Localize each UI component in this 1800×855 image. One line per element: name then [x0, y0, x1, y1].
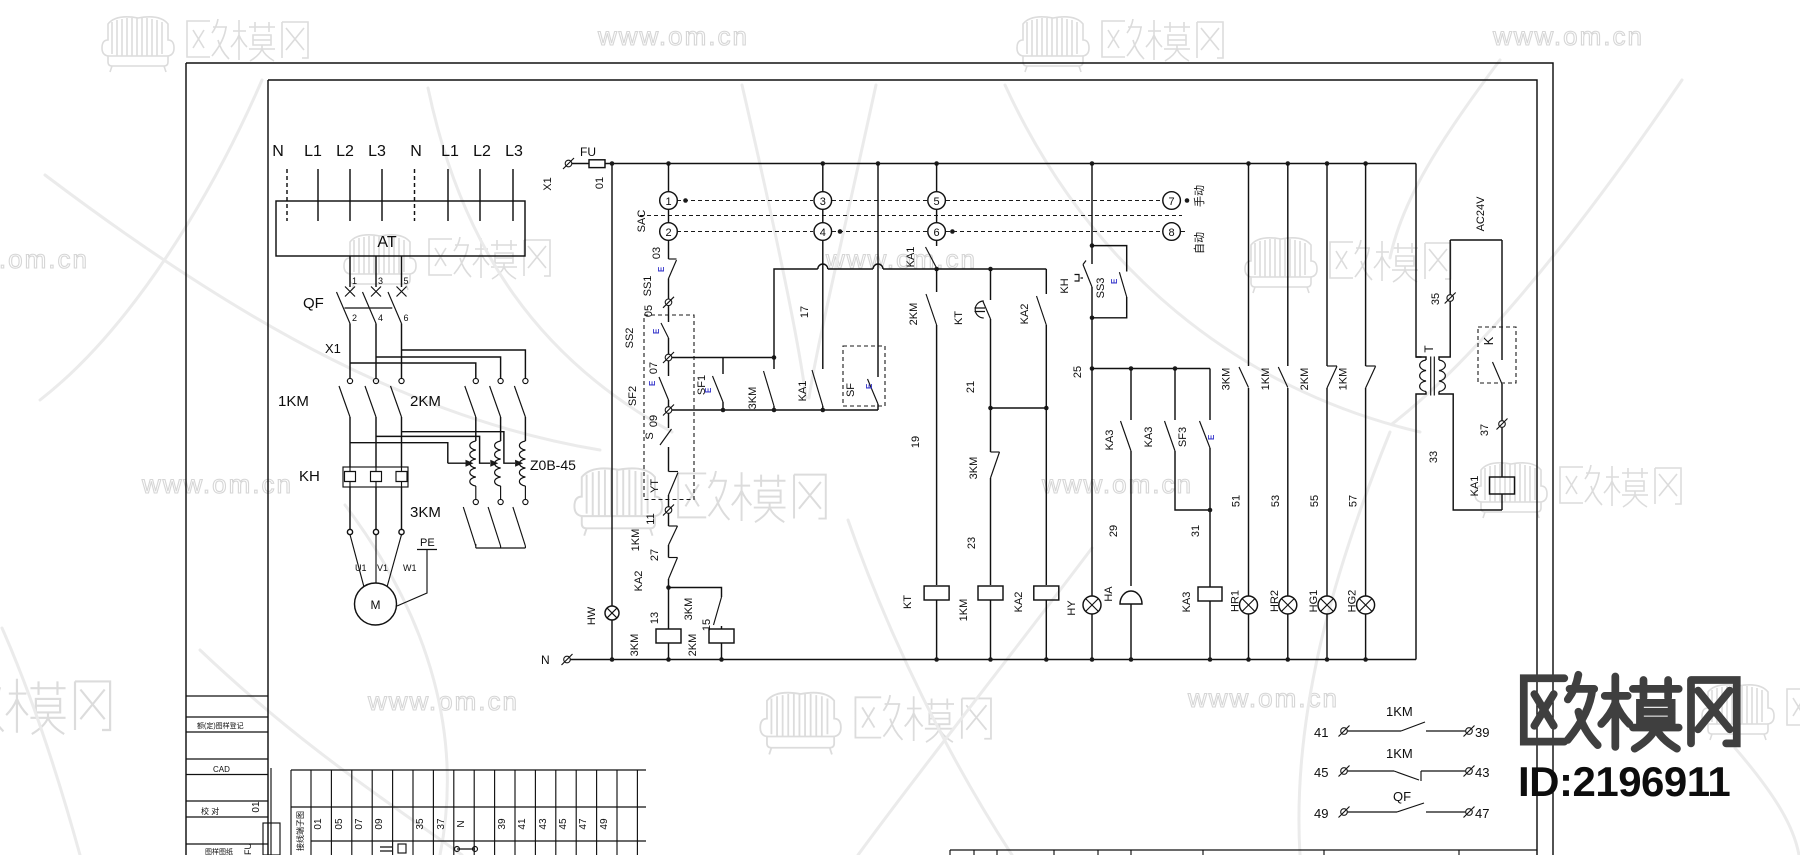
svg-text:FU: FU	[580, 145, 596, 159]
top rail L	[612, 163, 1416, 165]
reactor coils Z0B-45	[470, 441, 526, 486]
signal column HG2	[1365, 164, 1367, 367]
svg-text:PE: PE	[420, 537, 435, 549]
svg-text:KA2: KA2	[1013, 592, 1025, 613]
indicator lamp HW	[605, 606, 619, 620]
wire 27	[668, 545, 670, 558]
svg-text:K: K	[1481, 336, 1496, 345]
lamp HY	[1091, 369, 1093, 597]
svg-text:41: 41	[1314, 725, 1328, 740]
svg-text:11: 11	[645, 513, 657, 524]
svg-text:接线端子图: 接线端子图	[295, 811, 305, 851]
svg-text:KT: KT	[902, 595, 914, 609]
svg-text:L2: L2	[473, 143, 491, 160]
svg-text:S: S	[644, 432, 656, 439]
relay coil KA1	[1501, 427, 1503, 477]
distribution lines QF to 2KM	[350, 350, 525, 378]
svg-text:09: 09	[374, 818, 385, 830]
svg-text:2KM: 2KM	[908, 303, 920, 326]
svg-text:1KM: 1KM	[1386, 746, 1413, 761]
svg-text:07: 07	[354, 818, 365, 830]
svg-text:5: 5	[934, 196, 940, 208]
bypass button SS3	[1092, 246, 1127, 318]
terminal 09	[665, 407, 672, 414]
auxiliary contact 2KM NO	[936, 268, 938, 292]
svg-text:L1: L1	[304, 143, 322, 160]
svg-text:47: 47	[578, 818, 589, 830]
svg-text:www.om.cn: www.om.cn	[597, 21, 749, 51]
right rail to transformer primary	[1416, 164, 1422, 358]
svg-text:1: 1	[665, 196, 671, 208]
svg-text:4: 4	[820, 227, 826, 239]
motor leads U1 V1 W1	[350, 535, 402, 587]
svg-text:51: 51	[1231, 495, 1243, 507]
wire 07 line	[672, 357, 774, 359]
SAC contact 2	[668, 209, 670, 222]
svg-text:L3: L3	[505, 143, 523, 160]
terminal 05	[665, 299, 672, 306]
neutral terminal N	[564, 656, 571, 663]
outer drawing frame	[186, 63, 1553, 855]
svg-text:1KM: 1KM	[1260, 368, 1272, 391]
svg-text:FU: FU	[243, 843, 253, 855]
wire 21	[990, 319, 992, 452]
terminal 37	[1499, 421, 1506, 428]
svg-text:1KM: 1KM	[278, 393, 309, 410]
svg-text:8: 8	[1169, 227, 1175, 239]
wire 03	[668, 240, 670, 259]
svg-text:HA: HA	[1103, 586, 1115, 602]
svg-text:3KM: 3KM	[410, 504, 441, 521]
svg-text:U1: U1	[355, 563, 367, 573]
svg-text:YT: YT	[649, 479, 661, 493]
svg-text:手动: 手动	[1192, 185, 1206, 207]
svg-text:KT: KT	[953, 311, 965, 325]
svg-text:SF3: SF3	[1177, 427, 1189, 447]
svg-text:2KM: 2KM	[1299, 368, 1311, 391]
svg-text:23: 23	[966, 537, 978, 549]
svg-text:L2: L2	[336, 143, 354, 160]
svg-text:AT: AT	[377, 234, 396, 251]
svg-text:39: 39	[1475, 725, 1489, 740]
svg-text:43: 43	[538, 818, 549, 830]
svg-text:自动: 自动	[1193, 232, 1206, 254]
svg-text:3: 3	[378, 276, 383, 286]
svg-text:49: 49	[599, 818, 610, 830]
wire 23	[990, 478, 992, 585]
svg-text:1: 1	[352, 276, 357, 286]
svg-text:05: 05	[334, 818, 345, 830]
svg-text:E: E	[657, 266, 666, 272]
svg-text:45: 45	[558, 818, 569, 830]
node 25	[1090, 366, 1095, 371]
svg-text:额(定)图样登记: 额(定)图样登记	[197, 721, 244, 730]
relay contact KA1 auto	[936, 240, 938, 246]
SAC contact 4	[822, 209, 824, 222]
terminal strip table 接线端子图	[291, 770, 646, 855]
test button SF3	[1209, 369, 1211, 421]
svg-text:07: 07	[648, 362, 660, 374]
svg-text:13: 13	[649, 612, 661, 624]
svg-text:27: 27	[649, 549, 661, 561]
svg-text:37: 37	[436, 818, 447, 830]
svg-text:HY: HY	[1066, 600, 1078, 616]
top rail junction nodes	[610, 161, 615, 166]
svg-text:2KM: 2KM	[687, 634, 699, 657]
svg-text:43: 43	[1475, 765, 1489, 780]
svg-text:09: 09	[648, 415, 660, 427]
svg-text:X1: X1	[542, 177, 554, 190]
svg-text:KH: KH	[1059, 278, 1071, 293]
svg-text:X1: X1	[325, 341, 341, 356]
svg-text:3KM: 3KM	[683, 598, 695, 621]
svg-text:47: 47	[1475, 806, 1489, 821]
svg-text:QF: QF	[303, 295, 324, 312]
primary return to N	[1416, 357, 1426, 660]
svg-text:01: 01	[251, 801, 262, 813]
svg-text:1KM: 1KM	[630, 529, 642, 552]
terminal 35	[1447, 295, 1454, 302]
svg-text:1KM: 1KM	[1338, 368, 1350, 391]
relay contact KA3 NO seal	[1174, 369, 1176, 421]
inner drawing frame	[268, 80, 1537, 855]
wire line 269 right section	[937, 268, 1047, 270]
svg-text:KA3: KA3	[1143, 427, 1155, 448]
svg-text:19: 19	[910, 436, 922, 448]
transformer AT box	[276, 201, 525, 256]
svg-text:L1: L1	[441, 143, 459, 160]
svg-text:3KM: 3KM	[629, 634, 641, 657]
svg-text:SAC: SAC	[636, 210, 648, 233]
svg-text:01: 01	[313, 818, 324, 830]
svg-text:53: 53	[1270, 495, 1282, 507]
1KM outputs down to KH	[350, 417, 402, 467]
wire 25 line	[1092, 368, 1210, 370]
svg-text:W1: W1	[403, 563, 417, 573]
wire 31	[1209, 448, 1211, 587]
svg-text:3KM: 3KM	[1221, 368, 1233, 391]
svg-text:17: 17	[799, 306, 811, 318]
svg-text:E: E	[704, 387, 713, 393]
svg-text:3KM: 3KM	[968, 457, 980, 480]
svg-text:AC24V: AC24V	[1475, 196, 1487, 232]
svg-text:E: E	[652, 328, 661, 334]
KH outputs to motor terminals	[347, 487, 404, 535]
svg-text:www.om.cn: www.om.cn	[0, 244, 89, 274]
SAC contact 6	[936, 209, 938, 222]
svg-text:SS3: SS3	[1095, 278, 1107, 299]
svg-text:3: 3	[820, 196, 826, 208]
svg-text:37: 37	[1479, 424, 1491, 436]
svg-text:55: 55	[1309, 495, 1321, 507]
SAC contact 5	[936, 164, 938, 192]
SAC contact 8	[1163, 223, 1181, 241]
svg-text:7: 7	[1169, 196, 1175, 208]
svg-text:45: 45	[1314, 765, 1328, 780]
svg-text:KA3: KA3	[1104, 430, 1116, 451]
svg-text:ID:2196911: ID:2196911	[1518, 758, 1730, 805]
svg-text:1KM: 1KM	[958, 599, 970, 622]
relay contact KA3 NO	[1130, 369, 1132, 421]
svg-text:2: 2	[665, 227, 671, 239]
signal column HG1	[1326, 164, 1328, 367]
2KM outputs down to reactors	[476, 417, 526, 441]
neutral rail N	[571, 659, 1417, 661]
svg-text:www.om.cn: www.om.cn	[1041, 469, 1193, 499]
signal column HR2	[1287, 164, 1289, 367]
svg-text:03: 03	[651, 247, 663, 259]
svg-text:E: E	[865, 383, 874, 389]
wire 09 line	[672, 409, 878, 411]
terminal 11	[665, 507, 672, 514]
branch to 2KM coil	[669, 588, 722, 598]
svg-text:校 对: 校 对	[201, 806, 219, 816]
svg-text:KA2: KA2	[1019, 304, 1031, 325]
motor M	[355, 583, 397, 625]
svg-text:Z0B-45: Z0B-45	[530, 457, 576, 473]
svg-text:KA1: KA1	[1469, 476, 1481, 497]
svg-text:29: 29	[1108, 525, 1120, 537]
dashed enclosure SS2/YT	[644, 315, 694, 500]
svg-text:HW: HW	[586, 606, 598, 625]
alarm rung main column	[1091, 164, 1093, 265]
svg-text:CAD: CAD	[213, 765, 230, 774]
svg-text:SF2: SF2	[627, 386, 639, 406]
left rail with HW lamp	[611, 164, 613, 660]
svg-text:35: 35	[1430, 293, 1442, 305]
title block table bottom	[950, 850, 1537, 855]
svg-text:6: 6	[934, 227, 940, 239]
riser from 07 junction to line 17 rail	[774, 269, 937, 358]
selector switch SAC position lines	[677, 200, 1162, 202]
svg-text:KA1: KA1	[797, 381, 809, 402]
svg-text:V1: V1	[377, 563, 388, 573]
relay contact KA2 NO	[1045, 269, 1047, 294]
svg-text:49: 49	[1314, 806, 1328, 821]
svg-text:5: 5	[404, 276, 409, 286]
signal column HR1	[1248, 164, 1250, 367]
svg-text:39: 39	[497, 818, 508, 830]
wire 19	[936, 325, 938, 585]
svg-text:L3: L3	[368, 143, 386, 160]
wire 13	[668, 579, 670, 629]
svg-text:E: E	[648, 380, 657, 386]
svg-text:N: N	[410, 143, 422, 160]
svg-text:www.om.cn: www.om.cn	[1187, 683, 1339, 713]
svg-text:1KM: 1KM	[1386, 704, 1413, 719]
watermark urls	[0, 21, 1644, 716]
svg-text:41: 41	[517, 818, 528, 830]
SAC contact 7	[1163, 192, 1181, 210]
svg-text:SS2: SS2	[624, 328, 636, 349]
site logo big	[1524, 675, 1737, 749]
incoming line stubs	[287, 169, 513, 221]
wire 21/KA2 tie	[991, 407, 1047, 409]
svg-text:www.om.cn: www.om.cn	[367, 686, 519, 716]
svg-text:57: 57	[1348, 495, 1360, 507]
svg-text:35: 35	[415, 818, 426, 830]
svg-text:2KM: 2KM	[410, 393, 441, 410]
svg-text:3KM: 3KM	[747, 387, 759, 410]
svg-text:33: 33	[1428, 451, 1440, 463]
AT output wires	[350, 256, 402, 287]
wire 29	[1130, 451, 1132, 586]
svg-text:SF: SF	[845, 383, 857, 397]
pushbutton SF (dashed box)	[843, 346, 885, 406]
svg-text:2: 2	[352, 313, 357, 323]
svg-text:QF: QF	[1393, 789, 1411, 804]
wire 17	[822, 240, 824, 369]
svg-text:21: 21	[965, 381, 977, 393]
svg-text:T: T	[1422, 345, 1436, 353]
SAC contact 1	[668, 164, 670, 193]
svg-text:E: E	[1110, 278, 1119, 284]
svg-text:N: N	[272, 143, 284, 160]
svg-text:KA2: KA2	[633, 571, 645, 592]
svg-text:KA1: KA1	[905, 247, 917, 268]
revision table left margin	[186, 696, 280, 855]
svg-text:31: 31	[1190, 525, 1202, 537]
time delay contact KT NO	[990, 269, 992, 300]
switch K (dashed box)	[1478, 327, 1516, 383]
svg-text:M: M	[371, 598, 381, 612]
SAC contact 3	[822, 164, 824, 192]
svg-text:www.om.cn: www.om.cn	[141, 469, 293, 499]
fuse FU and supply terminal	[565, 160, 572, 167]
svg-text:N: N	[456, 820, 467, 827]
svg-text:SS1: SS1	[642, 276, 654, 297]
phase tap lines into reactors	[350, 432, 515, 464]
svg-text:图样图纸: 图样图纸	[205, 847, 233, 855]
svg-text:6: 6	[404, 313, 409, 323]
svg-text:E: E	[1207, 434, 1216, 440]
svg-text:KA3: KA3	[1181, 592, 1193, 613]
svg-text:25: 25	[1072, 366, 1084, 378]
svg-text:www.om.cn: www.om.cn	[1492, 21, 1644, 51]
svg-text:N: N	[541, 653, 550, 667]
svg-text:4: 4	[378, 313, 383, 323]
svg-text:KH: KH	[299, 468, 320, 485]
svg-text:01: 01	[594, 177, 606, 189]
terminal 07	[665, 354, 672, 361]
QF output poles to 1KM	[350, 324, 402, 379]
